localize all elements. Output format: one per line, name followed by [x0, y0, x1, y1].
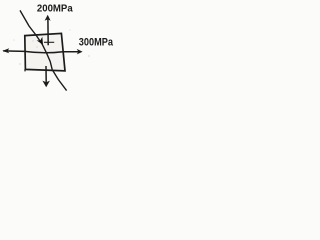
right arrowhead — [77, 49, 83, 55]
stress element square — [25, 33, 65, 71]
scan speckle — [13, 29, 90, 65]
top tick — [44, 41, 54, 43]
sigma-y bottom arrow — [42, 66, 50, 87]
svg-text:300MPa: 300MPa — [79, 37, 114, 49]
left arrowhead — [2, 48, 9, 53]
background — [0, 0, 117, 97]
sigma-x axis line (300MPa horizontal) — [3, 51, 78, 53]
sigma-y top arrow (200MPa) — [45, 15, 51, 45]
svg-text:200MPa: 200MPa — [37, 2, 73, 14]
oblique plane line — [20, 10, 67, 90]
oblique plane arrowhead — [37, 37, 43, 45]
